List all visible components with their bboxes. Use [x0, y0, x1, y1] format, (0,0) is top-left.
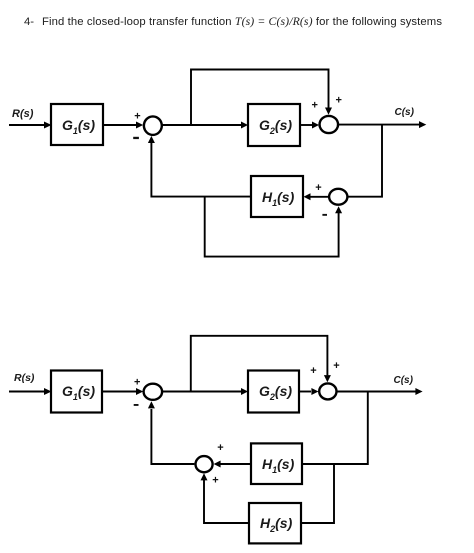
svg-text:+: +	[310, 365, 316, 377]
svg-text:+: +	[333, 360, 339, 372]
block H1 (bottom)	[251, 443, 302, 484]
wire: S3 output into H1 (top)	[304, 193, 329, 200]
svg-text:+: +	[312, 100, 318, 112]
wire: S2 to output C(s) (bottom)	[337, 388, 422, 395]
wire: S1 to G2 (bottom)	[163, 388, 248, 395]
wire: output node down and left into S3 (top)	[348, 125, 382, 197]
wire: S1 to G2 (top)	[162, 122, 248, 129]
svg-text:+: +	[134, 111, 140, 123]
svg-text:+: +	[315, 182, 321, 194]
block G1 (top)	[51, 104, 103, 145]
wire: output node down and left into H1 input (bottom)	[302, 392, 368, 465]
title: problem statement	[24, 14, 442, 28]
sign - at S1 (top)	[133, 137, 139, 139]
sign - at S3 bottom input (top)	[322, 214, 327, 216]
wire: G1 to summing junction S1 (bottom)	[102, 388, 143, 395]
block H2 (bottom)	[249, 503, 301, 543]
svg-text:Find the closed-loop transfer: Find the closed-loop transfer function T…	[42, 14, 442, 28]
svg-text:+: +	[134, 376, 140, 388]
svg-text:+: +	[217, 442, 223, 454]
wire: branch down and left into H2 input (bottom)	[301, 464, 334, 523]
wire: S4 output left and up into S1 minus input (bottom)	[148, 401, 195, 464]
summing junction S3 (top)	[329, 189, 347, 205]
svg-text:C(s): C(s)	[394, 375, 414, 386]
wire: branch down, right and up into S3 minus input (top)	[205, 197, 342, 257]
wire: G2 to summing junction S2 (bottom)	[299, 388, 319, 395]
block G1 (bottom)	[51, 371, 102, 413]
wire: input R(s) to G1 (top)	[9, 122, 52, 129]
svg-text:+: +	[336, 95, 342, 107]
wire: G1 to summing junction S1 (top)	[103, 122, 143, 129]
block H1 (top)	[251, 176, 303, 217]
wire: G2 to summing junction S2 (top)	[300, 122, 319, 129]
svg-text:+: +	[212, 474, 218, 486]
summing junction S4 (bottom)	[196, 456, 213, 472]
svg-text:R(s): R(s)	[12, 108, 34, 120]
wire: S2 to output C(s) (top)	[339, 121, 427, 128]
wire: feedforward branch up and over to S2 (top)	[191, 70, 332, 126]
svg-text:4-: 4-	[24, 16, 34, 28]
wire: H1 output into S4 (bottom)	[214, 461, 251, 468]
summing junction S1 (top)	[144, 116, 162, 134]
block G2 (bottom)	[248, 371, 299, 413]
wire: H1 output left and up into S1 minus input (top)	[148, 136, 251, 197]
sign - at S1 (bottom)	[134, 404, 139, 406]
summing junction S2 (top)	[320, 116, 339, 133]
svg-text:C(s): C(s)	[395, 107, 415, 118]
wire: input R(s) to G1 (bottom)	[9, 388, 52, 395]
svg-text:R(s): R(s)	[14, 372, 35, 384]
wire: H2 output left and up into S4 (bottom)	[201, 473, 250, 523]
wire: feedforward branch up and over to S2 (bottom)	[191, 336, 331, 392]
block G2 (top)	[248, 104, 300, 146]
summing junction S2 (bottom)	[319, 383, 336, 399]
summing junction S1 (bottom)	[144, 384, 163, 400]
